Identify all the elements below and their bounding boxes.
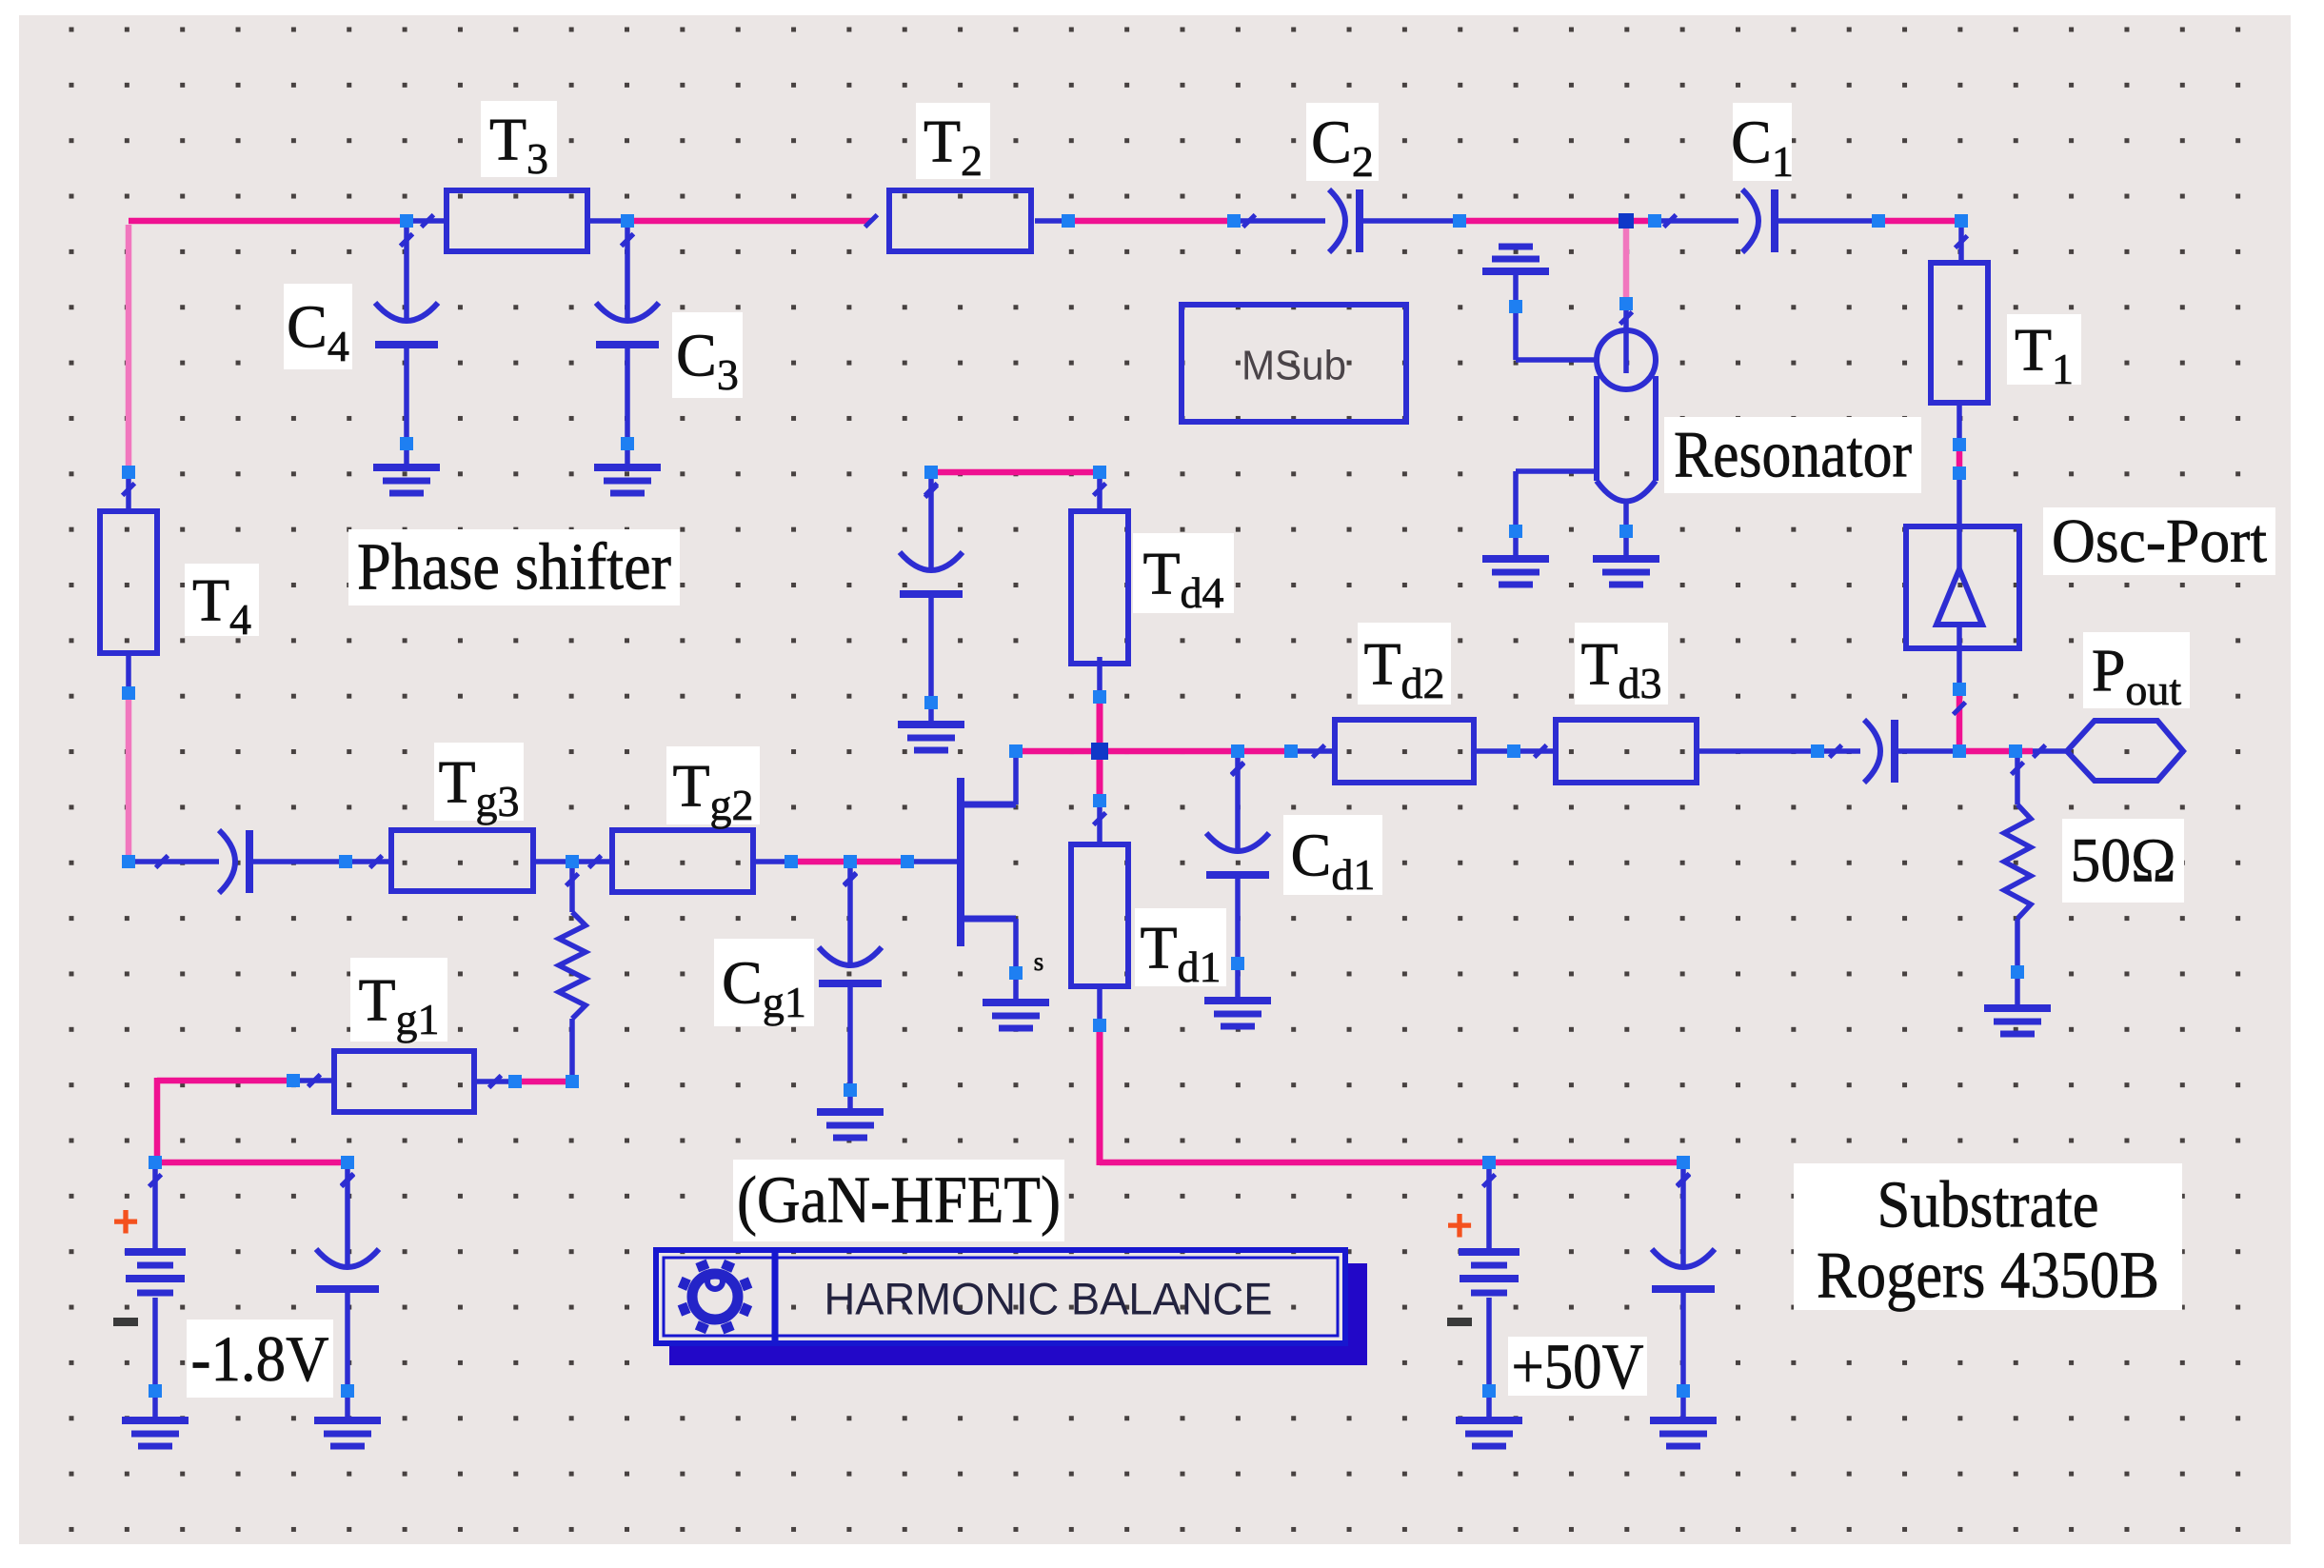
svg-text:+: + (112, 1198, 139, 1248)
svg-text:-1.8V: -1.8V (191, 1322, 329, 1395)
svg-text:s: s (1034, 947, 1044, 976)
svg-text:+: + (1446, 1201, 1473, 1252)
svg-text:50Ω: 50Ω (2071, 826, 2176, 896)
svg-text:(GaN-HFET): (GaN-HFET) (737, 1164, 1061, 1238)
svg-text:+50V: +50V (1512, 1330, 1644, 1402)
svg-text:Rogers 4350B: Rogers 4350B (1817, 1240, 2159, 1313)
svg-text:HARMONIC BALANCE: HARMONIC BALANCE (824, 1274, 1273, 1324)
svg-text:MSub: MSub (1241, 343, 1346, 389)
svg-text:Resonator: Resonator (1674, 419, 1912, 492)
svg-text:Osc-Port: Osc-Port (2052, 506, 2267, 576)
svg-text:Phase shifter: Phase shifter (357, 531, 671, 605)
svg-text:Substrate: Substrate (1877, 1169, 2099, 1242)
